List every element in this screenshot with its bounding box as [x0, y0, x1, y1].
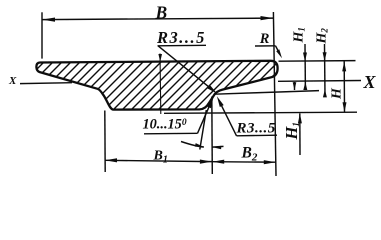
steep face extension line: [200, 110, 207, 150]
reference line A (top surface level, right): [279, 60, 356, 63]
leader from 10...15 to steep face: [198, 105, 211, 134]
extension line B1/B2 middle: [211, 97, 214, 175]
dimension line B2: [212, 161, 276, 164]
extension line B1 left: [104, 111, 106, 173]
svg-text:R3...5: R3...5: [156, 28, 206, 47]
svg-text:H: H: [330, 87, 345, 100]
reference line C (fillet level, right): [215, 91, 320, 95]
svg-text:R3...5: R3...5: [236, 121, 276, 137]
short arrow to fillet level line: [294, 82, 296, 90]
svg-text:R: R: [259, 31, 270, 47]
leader from R3...5 top to right fillet: [158, 46, 210, 88]
leader from R3...5 bottom to fillet: [221, 104, 237, 136]
svg-text:X: X: [363, 72, 377, 92]
dimension line B: [42, 18, 274, 20]
dimension B extension line right (long vertical): [273, 12, 276, 176]
leader from R to top-right corner: [276, 46, 280, 54]
dimension B extension line left: [41, 12, 43, 58]
thin vertical through section at x=160 with small arrow: [159, 54, 162, 115]
reference line D (bottom level, right): [164, 112, 357, 113]
svg-text:B: B: [155, 2, 168, 22]
svg-text:10...150: 10...150: [143, 117, 187, 133]
dimension line B1: [105, 160, 212, 161]
axis line X-X right segment: [278, 80, 361, 83]
axis line X-X left segment: [20, 82, 72, 85]
section outline: [36, 61, 277, 110]
angle dimension arc and arrows: [181, 142, 204, 148]
svg-text:X: X: [8, 75, 17, 87]
section cross-hatching: [0, 53, 359, 115]
